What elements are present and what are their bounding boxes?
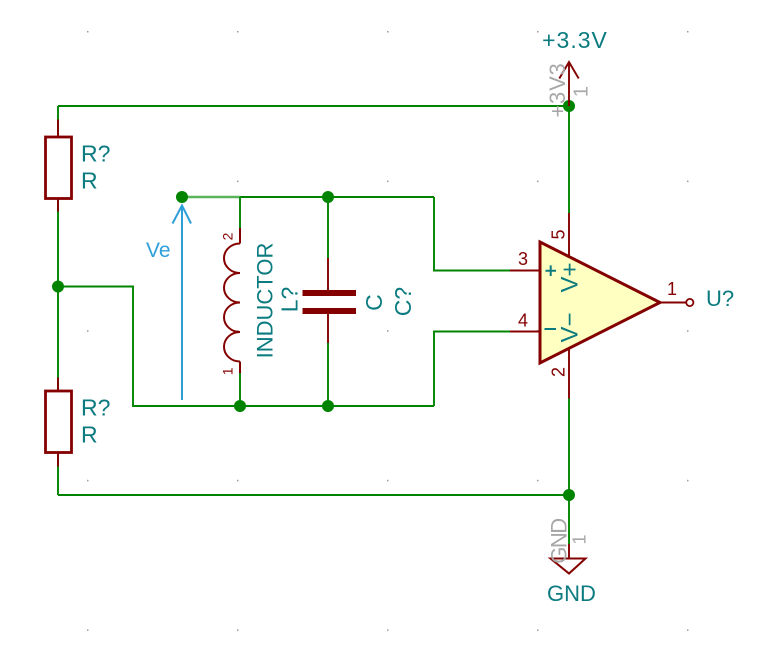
op-amp output pin open circle (686, 299, 693, 306)
resistor R2 (46, 378, 72, 467)
wire mid link from R junction to LC bottom rail (58, 287, 434, 407)
wire to op-amp pin 3 (434, 197, 510, 271)
svg-text:5: 5 (549, 229, 569, 239)
svg-text:2: 2 (549, 367, 569, 377)
inductor L1 (224, 228, 240, 373)
GND symbol triangle (551, 559, 586, 574)
op-amp U1 body (540, 242, 660, 363)
svg-text:1: 1 (667, 279, 677, 299)
wire LC top rail (240, 196, 434, 198)
svg-text:1: 1 (570, 534, 590, 544)
wire inductor stem bottom (239, 373, 241, 406)
wire top rail (58, 105, 569, 107)
svg-text:R: R (81, 422, 98, 448)
minus mark at pin 4 (545, 328, 557, 330)
svg-text:C?: C? (390, 287, 416, 316)
svg-text:INDUCTOR: INDUCTOR (253, 243, 278, 359)
junction resistor divider node (52, 281, 64, 293)
svg-text:V+: V+ (557, 262, 584, 292)
svg-text:1: 1 (220, 367, 236, 375)
+3.3V power symbol +3V3 (559, 62, 578, 106)
svg-text:Ve: Ve (146, 239, 171, 262)
svg-text:C: C (361, 294, 387, 311)
plus mark at pin 3 (546, 265, 557, 276)
svg-text:3: 3 (518, 249, 528, 269)
wire bottom rail (58, 494, 569, 496)
GND symbol pin stub (568, 544, 570, 559)
wire left vertical (57, 106, 59, 495)
svg-text:+3V3: +3V3 (545, 62, 570, 117)
wire opamp pin2 to bottom rail (568, 399, 570, 496)
op-amp U1 pin 5 lead (568, 213, 570, 257)
svg-text:U?: U? (706, 286, 734, 311)
wire inductor stem top (239, 197, 241, 228)
svg-text:2: 2 (220, 232, 236, 240)
wire LC top rail highlighted segment (182, 196, 240, 198)
op-amp U1 pin 3 lead (510, 270, 540, 272)
junction GND node (563, 489, 575, 501)
svg-text:R: R (81, 168, 98, 194)
wire GND stem (568, 495, 570, 544)
junction at Ve node (176, 191, 188, 203)
svg-text:R?: R? (81, 141, 110, 167)
svg-text:GND: GND (547, 519, 572, 564)
Ve arrow (173, 206, 192, 401)
grid dots (87, 31, 689, 631)
svg-text:L?: L? (277, 287, 303, 313)
svg-text:V−: V− (557, 312, 584, 342)
junction inductor bottom (234, 400, 246, 412)
junction at +3.3V node (563, 100, 575, 112)
wire capacitor stem bottom (327, 343, 329, 406)
svg-text:4: 4 (518, 311, 528, 331)
svg-text:R?: R? (81, 395, 110, 421)
op-amp output pin 1 lead (660, 302, 686, 304)
svg-text:+3.3V: +3.3V (542, 27, 608, 53)
svg-text:GND: GND (547, 581, 596, 606)
wire to op-amp pin 4 (434, 332, 510, 407)
junction capacitor bottom (322, 400, 334, 412)
capacitor C1 (303, 258, 357, 343)
op-amp U1 pin 2 lead (568, 349, 570, 399)
wire capacitor stem top (327, 197, 329, 258)
svg-text:1: 1 (571, 86, 593, 97)
junction capacitor top (322, 191, 334, 203)
resistor R1 (46, 120, 72, 212)
wire opamp power down (568, 106, 570, 213)
op-amp U1 pin 4 lead (510, 331, 540, 333)
